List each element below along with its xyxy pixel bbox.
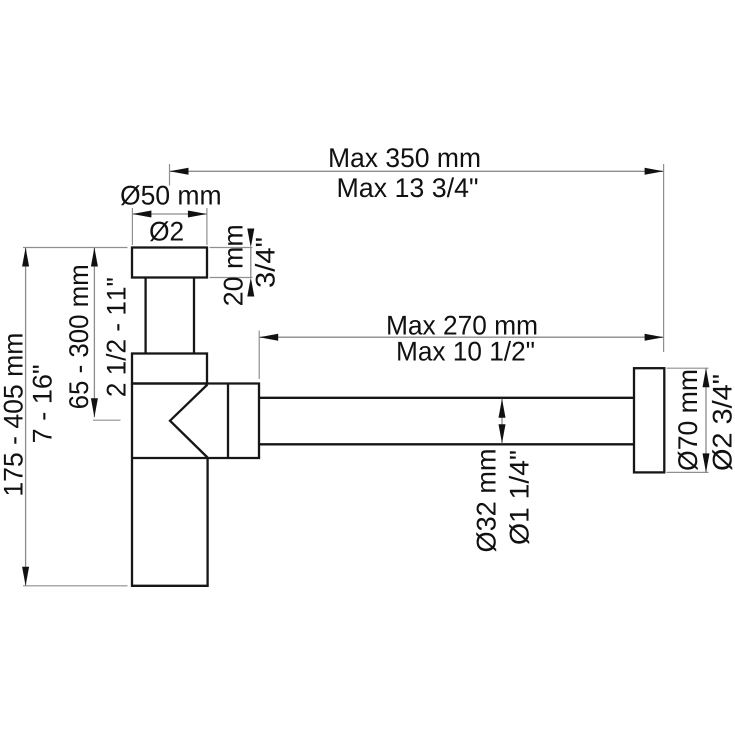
label 3/4"	[255, 238, 275, 287]
arrow D32 top	[499, 399, 506, 418]
extension line pipe centerline	[93, 419, 121, 421]
arrow 175-405 top	[22, 248, 29, 267]
arrow Max350 right	[645, 168, 664, 175]
label D2 3/4"	[712, 375, 732, 470]
label D32 mm	[476, 450, 496, 551]
dimension 175-405 line	[25, 248, 27, 586]
arrow D50 left	[132, 211, 151, 218]
dimension Max 350 line	[170, 170, 664, 172]
internal chevron	[170, 385, 208, 458]
dimension D70 line	[705, 368, 707, 472]
label D50 mm	[121, 185, 220, 205]
arrow Max270 right	[645, 334, 664, 341]
arrow 65-300 bottom	[91, 398, 98, 417]
arrow Max350 left	[170, 168, 189, 175]
extension line 20mm top	[210, 247, 253, 249]
extension line D50 right	[206, 208, 208, 245]
label 2 1/2 - 11"	[106, 278, 126, 396]
label Max 270 mm	[388, 316, 536, 335]
arrow 65-300 top	[91, 248, 98, 267]
outlet pipe top wall	[259, 397, 634, 399]
arrow 20mm bottom	[247, 278, 254, 297]
extension line Max270 left	[258, 331, 260, 380]
label D1 1/4"	[509, 451, 529, 544]
inlet tube left wall	[144, 278, 146, 354]
label D70 mm	[678, 371, 698, 470]
dimension 20mm line	[250, 248, 252, 278]
label Max 10 1/2"	[398, 341, 534, 361]
arrow Max270 left	[259, 334, 278, 341]
label Max 350 mm	[330, 148, 479, 167]
extension line D70 bottom	[667, 471, 709, 473]
inlet tube right wall	[193, 278, 195, 354]
extension line wall	[663, 164, 665, 352]
label D2	[150, 221, 183, 241]
arrow D50 right	[188, 211, 207, 218]
label 65 - 300 mm	[69, 266, 88, 408]
arrow D32 bottom	[499, 424, 506, 443]
inlet flange nut	[132, 248, 207, 278]
arrow D70 top	[703, 368, 710, 387]
label 20 mm	[224, 226, 243, 305]
dimension 65-300 line	[93, 248, 95, 418]
label Max 13 3/4"	[339, 177, 478, 197]
dimension D50 line	[132, 213, 207, 215]
label 7 - 16"	[33, 366, 52, 442]
arrow 175-405 bottom	[22, 567, 29, 586]
label 175 - 405 mm	[4, 334, 23, 494]
extension line height bottom	[23, 585, 128, 587]
extension line D50 left	[131, 208, 133, 245]
dimension Max 270 line	[259, 336, 663, 338]
connector divider	[227, 384, 229, 459]
slip nut	[132, 354, 207, 384]
wall flange	[634, 368, 664, 472]
dimension D32 line	[501, 399, 503, 444]
outlet pipe bottom wall	[259, 443, 634, 445]
trap body outline	[132, 384, 259, 586]
extension line height top	[23, 247, 128, 249]
extension line 20mm bottom	[210, 277, 253, 279]
arrow 20mm top	[247, 229, 254, 248]
arrow D70 bottom	[703, 453, 710, 472]
extension line D70 top	[667, 367, 709, 369]
extension line inlet centerline	[169, 164, 171, 186]
